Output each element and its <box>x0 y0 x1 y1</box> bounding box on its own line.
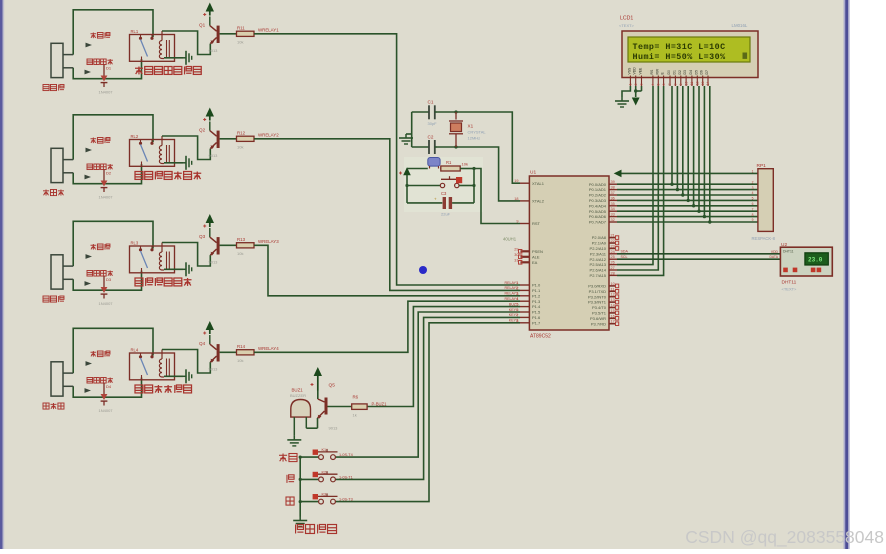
svg-text:18: 18 <box>514 197 518 201</box>
button K2 <box>319 477 324 482</box>
relay RL3 switch contacts <box>140 246 142 249</box>
power +V arrow row4 <box>206 321 214 330</box>
svg-text:ALE: ALE <box>532 254 540 259</box>
svg-text:RST: RST <box>532 221 541 226</box>
wire P0.3 to RP1 pin 5 <box>617 199 758 201</box>
svg-text:XTAL1: XTAL1 <box>532 181 545 186</box>
power +V arrow buzzer <box>314 367 322 376</box>
svg-text:P3.0/RXD: P3.0/RXD <box>588 284 606 289</box>
svg-text:3: 3 <box>752 186 754 190</box>
current arrow row3 b <box>85 281 92 286</box>
transistor Q3 <box>209 228 211 237</box>
resistor R11 <box>237 31 255 36</box>
junction D2/P0.2 <box>681 193 684 196</box>
svg-text:7: 7 <box>752 207 754 211</box>
resistor R12 <box>237 136 255 141</box>
power +V arrow row3 <box>206 214 214 223</box>
diode D1 <box>103 65 105 76</box>
junction crystal bottom <box>454 145 457 148</box>
transistor Q5 <box>317 391 319 400</box>
svg-text:10k: 10k <box>237 145 243 150</box>
wire buttons common rail <box>299 457 301 516</box>
svg-text:1: 1 <box>629 84 633 86</box>
svg-text:P1.6: P1.6 <box>532 315 541 320</box>
svg-text:D3: D3 <box>683 70 687 74</box>
wire Q2 base to R12 <box>220 138 237 140</box>
wire DHT VDD net (P2.3) <box>617 253 780 255</box>
svg-text:R6: R6 <box>353 395 359 400</box>
relay RL4 coil <box>159 359 162 364</box>
lcd cursor block <box>743 53 748 59</box>
power down-arrow LCD VDD <box>632 98 640 106</box>
junction D0/P0.0 <box>670 183 673 186</box>
svg-text:D3: D3 <box>106 277 112 282</box>
svg-text:14: 14 <box>611 304 615 308</box>
mcu pin P0.6/AD6 (pin 33) <box>609 216 617 218</box>
wire XTAL1 net <box>437 112 520 183</box>
svg-text:DATA: DATA <box>769 255 778 259</box>
svg-text:VEE: VEE <box>639 67 643 75</box>
svg-text:6: 6 <box>662 84 666 86</box>
svg-text:25: 25 <box>611 255 615 259</box>
junction reset right top <box>472 167 475 170</box>
svg-text:P3.6/WR: P3.6/WR <box>590 316 606 321</box>
label load3 name (chinese) <box>43 296 49 302</box>
svg-text:9013: 9013 <box>209 48 219 53</box>
svg-text:K1: K1 <box>322 448 327 452</box>
svg-text:P0.5/AD5: P0.5/AD5 <box>589 209 607 214</box>
svg-text:U2: U2 <box>781 242 787 248</box>
resistor R6 <box>352 404 367 410</box>
svg-text:11: 11 <box>611 287 615 291</box>
svg-text:39: 39 <box>611 180 615 184</box>
svg-text:1N4007: 1N4007 <box>99 408 114 413</box>
load LOAD3 (rectangle body) <box>51 255 63 289</box>
mcu pin P1.5 (pin 6) <box>520 311 529 313</box>
wire net RELAY4 (R14 to P1.3) <box>254 301 520 352</box>
svg-text:D4: D4 <box>689 70 693 74</box>
ground buttons rail <box>299 517 301 521</box>
current arrow row1 a <box>86 43 93 48</box>
svg-text:DHT11: DHT11 <box>782 280 797 286</box>
svg-text:VDD: VDD <box>633 67 637 75</box>
svg-text:32: 32 <box>611 218 615 222</box>
svg-text:19: 19 <box>514 179 518 183</box>
wire coil2 bottom to ground <box>164 162 183 164</box>
wire coil4 bottom to ground <box>164 375 183 377</box>
wire rail to button K1 <box>300 456 319 458</box>
wire P0.4 to RP1 pin 6 <box>617 205 758 207</box>
svg-text:5: 5 <box>752 197 754 201</box>
svg-text:CSDN @qq_2083558048: CSDN @qq_2083558048 <box>685 527 884 548</box>
current arrow row4 b <box>85 388 92 393</box>
ground coil2 (rotated) <box>183 162 186 164</box>
svg-text:26: 26 <box>611 261 615 265</box>
junction crystal top <box>454 110 457 113</box>
mcu pin P1.4 (pin 5) <box>520 306 529 308</box>
svg-text:12: 12 <box>611 293 615 297</box>
svg-text:Q1: Q1 <box>199 23 206 28</box>
wire Q4 base to R14 <box>220 351 237 353</box>
svg-text:K2: K2 <box>322 470 327 474</box>
left blue window edge <box>0 0 3 549</box>
mcu pin P3.0/RXD (pin 10) <box>609 285 616 287</box>
ground coil4 (rotated) <box>183 375 186 377</box>
svg-text:P1.5: P1.5 <box>532 310 541 315</box>
resistor R14 <box>237 350 255 355</box>
svg-text:30pF: 30pF <box>428 121 438 126</box>
lcd pin 5 stub+number <box>657 76 659 87</box>
transistor Q1 <box>209 17 211 26</box>
svg-text:P0.4/AD4: P0.4/AD4 <box>589 203 607 208</box>
svg-text:24: 24 <box>611 250 615 254</box>
mcu pin P2.1/A9 (pin 22) <box>609 242 616 244</box>
relay RL3 blade <box>141 251 148 268</box>
svg-text:P1.3: P1.3 <box>532 299 541 304</box>
dht button c <box>811 268 816 273</box>
svg-text:P1.7: P1.7 <box>532 320 541 325</box>
relay RL1 blade <box>141 40 148 57</box>
svg-text:21: 21 <box>611 234 615 238</box>
svg-text:17: 17 <box>611 320 615 324</box>
svg-text:2: 2 <box>516 286 518 290</box>
mcu pin P1.0 (pin 1) <box>520 284 529 286</box>
label button1 SET (chinese) <box>279 454 287 456</box>
svg-text:9: 9 <box>752 218 754 222</box>
svg-text:<TEXT>: <TEXT> <box>619 23 635 28</box>
svg-text:11: 11 <box>690 82 694 86</box>
svg-text:3: 3 <box>516 292 518 296</box>
svg-text:9: 9 <box>516 220 518 224</box>
wire load3 top rail <box>73 221 153 266</box>
wire load4 top rail <box>73 328 153 373</box>
svg-text:10k: 10k <box>462 162 468 167</box>
svg-text:P0.1/AD1: P0.1/AD1 <box>589 187 607 192</box>
relay RL4 switch contacts <box>140 353 142 356</box>
reset circuit tint <box>404 157 483 212</box>
dht button b <box>793 268 798 273</box>
svg-text:BUZ1: BUZ1 <box>292 388 304 393</box>
svg-text:9: 9 <box>679 84 683 86</box>
svg-text:Q3: Q3 <box>199 234 206 239</box>
svg-text:9013: 9013 <box>209 260 219 265</box>
mcu pin P3.2/INT0 (pin 12) <box>609 296 616 298</box>
diode D4 <box>103 383 105 394</box>
power +V arrow row2 <box>206 108 214 117</box>
svg-text:WRELAY1: WRELAY1 <box>258 28 279 33</box>
svg-text:CRYSTAL: CRYSTAL <box>468 130 487 135</box>
junction reset left mid <box>405 184 408 187</box>
wire rail to button K3 <box>300 501 319 503</box>
svg-text:40UH1: 40UH1 <box>503 237 517 242</box>
power left-arrow RP1 common <box>614 170 622 178</box>
sensor U2 DHT11 body <box>780 247 832 276</box>
svg-text:15: 15 <box>611 309 615 313</box>
mcu pin PSEN (pin 29) <box>521 250 530 252</box>
svg-text:RESPACK-8: RESPACK-8 <box>752 236 776 241</box>
junction D4/P0.4 <box>692 204 695 207</box>
relay RL1 switch contacts <box>140 35 142 38</box>
crystal X1 <box>455 112 457 120</box>
svg-text:+: + <box>434 197 437 202</box>
wire net KEY2 (P1.6 to button K2) <box>336 317 521 479</box>
svg-text:8: 8 <box>516 319 518 323</box>
svg-text:Temp= H=31C L=10C: Temp= H=31C L=10C <box>633 42 726 52</box>
relay RL3 coil <box>159 252 162 257</box>
svg-text:Q4: Q4 <box>199 341 206 346</box>
svg-text:D4: D4 <box>106 384 112 389</box>
svg-text:P3.5/T1: P3.5/T1 <box>592 311 607 316</box>
svg-text:7: 7 <box>516 313 518 317</box>
wire coil1 top to Q1 emitter <box>162 31 210 55</box>
svg-text:P1.4: P1.4 <box>532 304 541 309</box>
label load1 name (chinese) <box>43 85 49 91</box>
svg-text:P2.7/A15: P2.7/A15 <box>590 273 607 278</box>
svg-text:2: 2 <box>634 84 638 86</box>
svg-text:P3.1/TXD: P3.1/TXD <box>589 289 606 294</box>
svg-text:WRELAY3: WRELAY3 <box>258 239 279 244</box>
svg-text:10k: 10k <box>237 40 243 45</box>
svg-text:9013: 9013 <box>209 153 219 158</box>
relay RL4 body <box>130 353 175 380</box>
svg-text:RL4: RL4 <box>131 348 139 353</box>
wire net KEY3 (P1.7 to button K3) <box>336 323 521 502</box>
relay RL4 blade <box>141 358 148 375</box>
svg-text:10k: 10k <box>237 251 243 256</box>
svg-text:P1.2: P1.2 <box>532 293 541 298</box>
svg-text:D7: D7 <box>705 70 709 74</box>
svg-text:P-BUZ1: P-BUZ1 <box>372 401 388 406</box>
svg-text:R12: R12 <box>237 131 246 136</box>
wire coil4 top to Q4 emitter <box>162 350 210 374</box>
mcu pin P2.7/A15 (pin 28) <box>609 274 617 276</box>
lcd pin 14 stub+number <box>707 76 709 87</box>
svg-text:D1: D1 <box>106 66 112 71</box>
button K4 (reset) <box>407 185 440 187</box>
wire net KEY1 (P1.5 to button K1) <box>336 312 521 457</box>
relay RL2 switch contacts <box>140 140 142 143</box>
svg-text:C3: C3 <box>441 191 447 196</box>
current arrow row2 a <box>86 148 93 153</box>
lcd pin 3 stub+number <box>641 76 643 87</box>
lcd screen <box>628 37 750 62</box>
mcu pin P2.0/A8 (pin 21) <box>609 237 616 239</box>
svg-text:P3.3/INT1: P3.3/INT1 <box>588 300 607 305</box>
transistor Q4 <box>209 335 211 344</box>
mcu pin P2.6/A14 (pin 27) <box>609 269 617 271</box>
svg-text:RL3: RL3 <box>131 241 139 246</box>
wire RP1 common to +V <box>621 172 758 174</box>
svg-text:AT89C52: AT89C52 <box>530 334 551 340</box>
wire Q5 base to R6 <box>328 406 352 408</box>
svg-text:12: 12 <box>696 82 700 86</box>
dht display <box>805 253 828 265</box>
current arrow row1 b <box>85 70 92 75</box>
svg-text:16: 16 <box>611 314 615 318</box>
wire P0.0 to RP1 pin 2 <box>617 183 758 185</box>
wire reset top row <box>407 168 428 170</box>
label control-switch row1 (chinese) <box>135 67 143 69</box>
wire DHT DATA net (P2.4) <box>617 258 780 260</box>
junction D6/P0.6 <box>703 215 706 218</box>
load LOAD1 (rectangle body) <box>51 43 63 77</box>
wire net RELAY1 (R11 to P1.0) <box>254 34 520 285</box>
svg-text:P2.5/A13: P2.5/A13 <box>590 262 607 267</box>
svg-text:P2.4/A12: P2.4/A12 <box>590 257 607 262</box>
mcu pin P3.7/RD (pin 17) <box>609 323 616 325</box>
white right margin <box>849 0 886 549</box>
svg-text:1: 1 <box>752 170 754 174</box>
svg-text:28: 28 <box>611 271 615 275</box>
lcd pin 6 stub+number <box>663 76 665 87</box>
wire LCD RW to P2.6 <box>617 86 658 270</box>
mcu pin P0.4/AD4 (pin 35) <box>609 205 617 207</box>
lcd pin 1 stub+number <box>629 76 631 87</box>
junction D3/P0.3 <box>687 199 690 202</box>
ground coil3 (rotated) <box>183 268 186 270</box>
svg-text:9013: 9013 <box>329 426 339 431</box>
power +V arrow reset <box>403 167 411 175</box>
capacitor C4 electrolytic (blue) <box>428 158 440 167</box>
svg-text:1: 1 <box>516 281 518 285</box>
junction reset right mid <box>472 184 475 187</box>
mcu pin P3.1/TXD (pin 11) <box>609 290 616 292</box>
svg-text:P0.6/AD6: P0.6/AD6 <box>589 214 607 219</box>
svg-text:RP1: RP1 <box>757 163 767 169</box>
svg-text:5: 5 <box>516 303 518 307</box>
wire reset right rail <box>473 169 475 203</box>
wire load1 top rail <box>73 10 153 55</box>
transistor Q2 <box>209 122 211 131</box>
svg-text:WRELAY2: WRELAY2 <box>258 133 279 138</box>
junction D1/P0.1 <box>676 188 679 191</box>
mcu pin P3.4/T0 (pin 14) <box>609 307 616 309</box>
wire RST net to MCU <box>474 169 520 224</box>
junction rail K3 <box>299 500 302 503</box>
mcu pin P3.6/WR (pin 16) <box>609 317 616 319</box>
svg-text:<TEXT>: <TEXT> <box>782 287 798 292</box>
mcu pin P1.2 (pin 3) <box>520 295 529 297</box>
lcd pin 8 stub+number <box>674 76 676 87</box>
junction LCD VDD <box>634 89 637 92</box>
wire P0.6 to RP1 pin 8 <box>617 216 758 218</box>
mcu pin P2.3/A11 (pin 24) <box>609 253 617 255</box>
svg-text:4: 4 <box>516 297 518 301</box>
svg-text:9013: 9013 <box>209 367 219 372</box>
wire load4 bottom rail <box>73 378 141 398</box>
svg-text:K3: K3 <box>322 493 327 497</box>
wire load1 bottom rail <box>73 59 141 79</box>
svg-text:SCL: SCL <box>621 255 628 259</box>
svg-text:P3.7/RD: P3.7/RD <box>591 321 606 326</box>
lcd pin 11 stub+number <box>691 76 693 87</box>
lcd pin 13 stub+number <box>702 76 704 87</box>
ground crystal caps <box>405 134 407 138</box>
label charge-port text row4 (chinese) <box>87 378 93 384</box>
svg-text:D0: D0 <box>667 70 671 74</box>
wire coil1 bottom to ground <box>164 57 183 59</box>
wire LCD D2 vertical <box>682 86 684 195</box>
power +V arrow row1 <box>206 3 214 12</box>
wire LCD VSS to ground <box>622 86 630 97</box>
svg-text:P0.7/AD7: P0.7/AD7 <box>589 220 607 225</box>
svg-text:22: 22 <box>611 239 615 243</box>
mcu pin P2.5/A13 (pin 26) <box>609 264 617 266</box>
label button3 DEC (chinese) <box>286 497 294 505</box>
mcu pin P1.7 (pin 8) <box>520 322 529 324</box>
label charge-port text row3 (chinese) <box>87 271 93 277</box>
wire Q5 emitter to buzzer <box>306 427 317 429</box>
junction D5/P0.5 <box>697 210 700 213</box>
svg-text:C1: C1 <box>428 100 434 105</box>
resistor R13 <box>237 243 255 248</box>
mcu pin P2.4/A12 (pin 25) <box>609 258 617 260</box>
wire LCD RS to P2.5 <box>617 86 653 265</box>
svg-text:P1.0: P1.0 <box>532 283 541 288</box>
label load2 name (chinese) <box>43 190 49 192</box>
current arrow row3 a <box>86 254 93 259</box>
wire LCD E to P2.7 <box>617 86 664 275</box>
svg-text:VSS: VSS <box>627 67 631 75</box>
svg-text:22uF: 22uF <box>441 212 451 217</box>
svg-text:8: 8 <box>674 84 678 86</box>
svg-text:Q2: Q2 <box>199 128 206 133</box>
mcu pin P1.3 (pin 4) <box>520 300 529 302</box>
wire LCD D6 vertical <box>703 86 705 217</box>
mcu pin P1.1 (pin 2) <box>520 289 529 291</box>
svg-text:LM016L: LM016L <box>732 23 748 28</box>
svg-text:2: 2 <box>752 180 754 184</box>
buzzer pins <box>293 417 295 436</box>
wire reset left rail <box>406 169 408 203</box>
svg-text:10: 10 <box>684 82 688 86</box>
svg-text:23.0: 23.0 <box>808 257 823 264</box>
svg-text:12MHz: 12MHz <box>468 136 481 141</box>
wire reset top to right rail <box>460 168 474 170</box>
svg-text:P3.4/T0: P3.4/T0 <box>592 305 607 310</box>
svg-text:33: 33 <box>611 213 615 217</box>
label charge-port text row2 (chinese) <box>87 164 93 170</box>
wire LCD VDD/VEE join <box>635 86 637 97</box>
mcu pin P3.3/INT1 (pin 13) <box>609 301 616 303</box>
lcd pin 9 stub+number <box>680 76 682 87</box>
svg-text:34: 34 <box>611 207 615 211</box>
svg-text:D5: D5 <box>694 70 698 74</box>
svg-text:36: 36 <box>611 196 615 200</box>
svg-text:1N4007: 1N4007 <box>99 90 114 95</box>
wire net RELAY3 (R13 to P1.2) <box>254 245 520 295</box>
relay RL1 body <box>130 35 175 62</box>
svg-text:D2: D2 <box>106 171 112 176</box>
current arrow row4 a <box>86 361 93 366</box>
mcu pin P0.2/AD2 (pin 37) <box>609 194 617 196</box>
svg-text:U1: U1 <box>530 170 536 176</box>
junction D7/P0.7 <box>708 220 711 223</box>
svg-text:27: 27 <box>611 266 615 270</box>
wire LCD D1 vertical <box>676 86 678 190</box>
svg-text:38: 38 <box>611 186 615 190</box>
svg-text:35: 35 <box>611 202 615 206</box>
svg-text:30: 30 <box>514 253 518 257</box>
capacitor C3 electrolytic <box>407 202 442 204</box>
wire P0.2 to RP1 pin 4 <box>617 194 758 196</box>
svg-text:D6: D6 <box>700 70 704 74</box>
wire LCD D0 vertical <box>671 86 673 184</box>
origin marker (blue dot) <box>419 266 427 274</box>
svg-text:1-0S-T4: 1-0S-T4 <box>339 453 353 457</box>
label control-switch row4 (chinese) <box>135 385 143 393</box>
lcd pin 2 stub+number <box>635 76 637 87</box>
